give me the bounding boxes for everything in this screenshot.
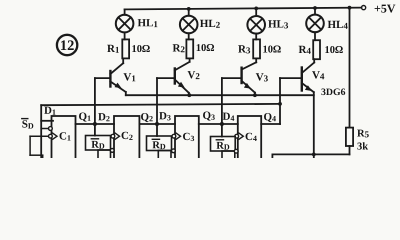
label R4 <box>299 46 311 54</box>
wire base V1 <box>95 78 111 135</box>
wire base V3 <box>222 78 242 136</box>
resistor R1 <box>122 39 129 58</box>
wire base V2 <box>157 78 175 136</box>
lamp HL3 <box>247 6 265 39</box>
clock input C2 <box>111 133 120 139</box>
label R3 <box>238 45 250 53</box>
feedback wire Q4 to D1 <box>41 102 282 158</box>
label RD bar FF4 <box>216 142 229 150</box>
lamp HL4 <box>306 6 324 40</box>
label D1 <box>44 107 55 115</box>
label Q1 <box>79 113 91 122</box>
label R2 <box>173 44 185 52</box>
label D2 <box>98 113 109 121</box>
value 10 ohm R2 <box>197 44 214 51</box>
resistor R3 <box>253 39 260 58</box>
label HL2 <box>200 20 220 28</box>
reset box RD of FF4 <box>211 137 239 160</box>
label Q4 <box>264 113 276 122</box>
clock input C3 <box>172 133 181 139</box>
label D3 <box>159 112 170 120</box>
value 10 ohm R1 <box>132 45 149 52</box>
label RD bar FF2 <box>91 141 104 149</box>
label Q3 <box>203 112 215 121</box>
overbar RD FF3 <box>152 138 159 140</box>
label C4 <box>246 133 257 141</box>
value 10 ohm R4 <box>325 46 342 53</box>
+5V label <box>375 5 396 13</box>
overbar of SD <box>22 118 28 120</box>
reset box RD of FF3 <box>147 136 176 160</box>
label C3 <box>183 133 194 141</box>
transistor V4 <box>302 59 314 158</box>
label RD bar FF3 <box>152 141 165 149</box>
+5V terminal <box>362 6 366 10</box>
overbar RD FF2 <box>91 138 98 140</box>
value 10 ohm R3 <box>263 46 280 53</box>
resistor R4 <box>313 40 320 59</box>
clock input C1 <box>49 133 58 139</box>
wire base V4 <box>280 78 302 124</box>
label V3 <box>256 73 268 81</box>
wire Q3 to D4 <box>199 122 238 126</box>
lamp HL2 <box>180 7 198 39</box>
lamp HL1 <box>116 9 134 39</box>
label HL3 <box>268 20 288 28</box>
label HL1 <box>138 19 158 27</box>
wire R5 bottom <box>272 146 349 158</box>
label D4 <box>223 113 235 121</box>
wire Q4 output <box>261 123 280 125</box>
overbar RD FF4 <box>216 139 223 141</box>
resistor R2 <box>186 39 193 58</box>
label C2 <box>122 132 133 140</box>
label HL4 <box>328 21 348 29</box>
label V1 <box>124 73 136 81</box>
reset box RD of FF2 <box>86 136 115 160</box>
transistor V2 <box>175 58 191 97</box>
flip-flop FF3 box <box>175 116 199 162</box>
flip-flop FF4 box <box>238 116 261 162</box>
wire Q1 to D2 <box>76 122 115 126</box>
clock wire CP <box>30 136 48 158</box>
resistor R5 <box>346 128 353 146</box>
label Q2 <box>141 113 153 122</box>
label R5 <box>357 130 369 138</box>
wire SD input with bubble <box>41 127 52 131</box>
label C1 <box>60 132 71 140</box>
value 3k <box>357 142 368 149</box>
label V2 <box>188 71 200 79</box>
wire from +5V to R5 <box>348 6 352 128</box>
transistor V3 <box>242 58 257 97</box>
set input SD bar label <box>22 120 33 128</box>
transistor V1 <box>110 58 125 95</box>
flip-flop FF2 box <box>114 116 139 162</box>
figure number 12 <box>57 35 77 55</box>
+5V supply rail <box>125 8 362 10</box>
label 3DG6 <box>321 89 345 96</box>
wire Q2 to D3 <box>139 122 175 126</box>
clock input C4 <box>235 133 244 139</box>
label R1 <box>107 45 119 53</box>
emitter rail <box>126 94 314 96</box>
label V4 <box>312 71 324 79</box>
flip-flop FF1 box <box>52 116 76 162</box>
